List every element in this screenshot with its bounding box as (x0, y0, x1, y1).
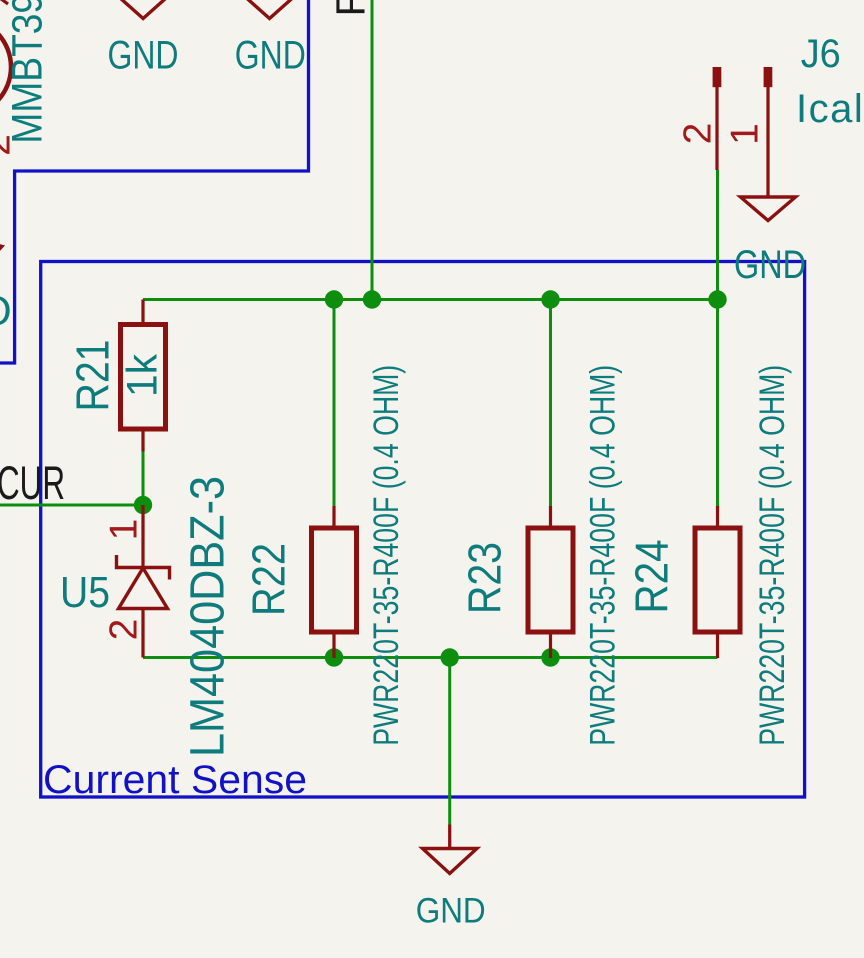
svg-text:GND: GND (416, 892, 486, 931)
corner fragment (0, 0, 8, 4)
wire bottom horizontal bus (143, 656, 718, 659)
svg-text:GND: GND (235, 33, 306, 77)
ground symbol (top-left 1) (116, 0, 171, 19)
resistor R23 (549, 506, 552, 528)
wire GND stub (448, 658, 451, 825)
svg-text:MMBT3904: MMBT3904 (4, 0, 52, 144)
wire R21 bottom to node (142, 451, 145, 505)
connector J6 pin 2 (713, 67, 722, 87)
svg-text:1: 1 (103, 519, 146, 541)
svg-text:Current Sense: Current Sense (43, 758, 307, 802)
svg-text:GND: GND (734, 243, 806, 287)
zener diode U5 (141, 505, 144, 567)
svg-text:R24: R24 (626, 540, 678, 614)
svg-text:R23: R23 (459, 542, 511, 614)
junction dots (325, 290, 343, 308)
transistor arrow fragment (0, 242, 5, 254)
wire J6 pin2 to bus (716, 170, 719, 300)
svg-text:LM4040DBZ-3: LM4040DBZ-3 (182, 476, 235, 757)
svg-text:J6: J6 (801, 32, 841, 76)
svg-text:CUR: CUR (0, 456, 65, 509)
svg-text:2: 2 (677, 123, 720, 145)
svg-text:O: O (0, 287, 12, 334)
wire R23 branch (549, 300, 552, 507)
svg-text:PWR220T-35-R400F (0.4 OHM): PWR220T-35-R400F (0.4 OHM) (752, 365, 792, 746)
svg-text:PWR220T-35-R400F (0.4 OHM): PWR220T-35-R400F (0.4 OHM) (583, 365, 623, 746)
resistor R24 (716, 506, 719, 528)
svg-text:1k: 1k (119, 354, 167, 397)
svg-text:U5: U5 (60, 568, 110, 617)
resistor R22 (332, 506, 335, 528)
ground symbol bottom (448, 825, 451, 849)
svg-text:Ical: Ical (796, 87, 864, 131)
svg-text:R22: R22 (243, 543, 295, 616)
svg-text:1: 1 (724, 123, 767, 145)
sheet box top-left (partial) (0, 0, 309, 363)
svg-text:F: F (328, 0, 374, 17)
svg-text:2: 2 (103, 619, 146, 641)
wire CUR from left edge (0, 504, 143, 507)
svg-text:GND: GND (108, 33, 179, 77)
connector J6 pin 1 (764, 67, 773, 87)
wire vertical from top (net F) (371, 0, 374, 300)
Current Sense box (41, 262, 805, 798)
wire top horizontal bus (143, 298, 718, 301)
resistor R21 (141, 300, 144, 325)
wire R24 branch (716, 300, 719, 507)
wire R22 branch (333, 300, 336, 507)
svg-text:PWR220T-35-R400F (0.4 OHM): PWR220T-35-R400F (0.4 OHM) (366, 365, 406, 746)
svg-text:2: 2 (0, 134, 19, 156)
svg-text:R21: R21 (67, 340, 119, 412)
ground symbol at J6 (741, 197, 796, 221)
transistor Q (partial arc) (0, 18, 11, 116)
ground symbol (top-left 2) (242, 0, 297, 19)
